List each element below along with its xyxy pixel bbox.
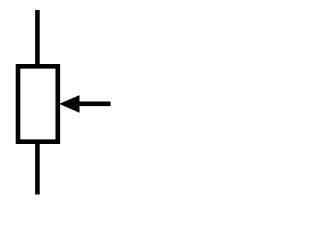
resistor body (potentiometer element) xyxy=(18,66,58,141)
wire: top terminal lead xyxy=(35,10,40,66)
wire: bottom terminal lead xyxy=(35,142,40,195)
wiper arrowhead xyxy=(59,95,79,113)
wiper arrow shaft xyxy=(78,102,111,107)
